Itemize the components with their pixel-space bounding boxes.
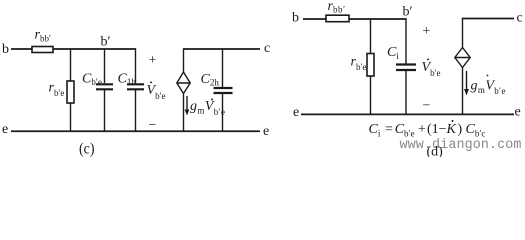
svg-text:=: = (385, 122, 393, 137)
svg-text:b: b (2, 42, 9, 57)
svg-text:c: c (264, 41, 270, 56)
svg-text:b: b (292, 11, 299, 26)
svg-text:c: c (517, 11, 523, 26)
svg-text:(1−: (1− (427, 122, 447, 137)
svg-text:e: e (293, 105, 299, 120)
svg-text:e: e (2, 122, 8, 137)
svg-text:(d): (d) (427, 145, 444, 158)
svg-text:e: e (515, 105, 521, 120)
svg-text:+: + (149, 53, 157, 68)
svg-text:+: + (422, 24, 430, 39)
svg-text:www.diangon.com: www.diangon.com (400, 138, 522, 153)
svg-text:−: − (423, 99, 431, 114)
svg-text:e: e (263, 124, 269, 139)
svg-text:b′: b′ (403, 5, 413, 20)
svg-text:+: + (418, 122, 426, 137)
svg-text:): ) (458, 122, 463, 137)
svg-text:−: − (149, 118, 157, 133)
svg-text:K: K (446, 122, 457, 137)
svg-text:b′: b′ (101, 35, 111, 50)
svg-text:(c): (c) (79, 141, 95, 157)
